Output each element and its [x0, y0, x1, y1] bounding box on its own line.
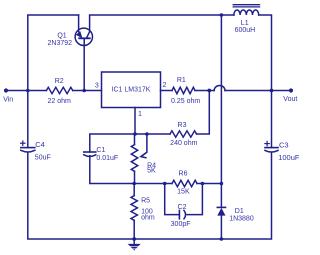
svg-text:0.25 ohm: 0.25 ohm — [171, 98, 200, 105]
svg-text:C3: C3 — [279, 140, 289, 149]
capacitor C4 plates — [21, 148, 35, 152]
wire R4 bottom lead — [134, 171, 136, 183]
svg-text:R6: R6 — [179, 170, 188, 177]
node Vin terminal — [4, 88, 8, 92]
svg-text:R1: R1 — [177, 77, 186, 84]
transistor Q1 circle — [75, 28, 92, 45]
inductor L1 core bar 2 — [233, 6, 259, 8]
wire left rail lower (C4 to bottom rail) — [28, 153, 134, 239]
potentiometer R4 wiper arrow — [141, 134, 147, 158]
wire R5 bottom lead — [133, 220, 135, 239]
wire R6 right lead to D1 line — [197, 183, 221, 185]
svg-text:15K: 15K — [177, 189, 190, 196]
svg-text:100uF: 100uF — [278, 153, 300, 162]
svg-text:50uF: 50uF — [35, 154, 51, 161]
wire R6 left node lead — [165, 183, 172, 185]
svg-text:IC1 LM317K: IC1 LM317K — [112, 86, 151, 93]
svg-text:300pF: 300pF — [171, 221, 191, 228]
capacitor C4 plus sign — [21, 141, 25, 145]
svg-text:22 ohm: 22 ohm — [48, 98, 72, 105]
svg-text:Vin: Vin — [3, 97, 13, 104]
junction D1 line / bottom rail — [220, 237, 224, 241]
svg-text:2: 2 — [163, 82, 167, 89]
junction pin1 / ADJ rail — [133, 132, 137, 136]
resistor R2 — [46, 87, 72, 93]
svg-text:ohm: ohm — [141, 215, 155, 222]
op-amp U1 / IC1 LM317K box — [102, 72, 161, 108]
junction output node at R1 — [207, 89, 211, 93]
svg-text:1: 1 — [138, 111, 142, 118]
transistor Q1 emitter arrow — [76, 31, 83, 38]
svg-text:5K: 5K — [147, 168, 156, 175]
wire R2 to IC1 pin 3 — [73, 90, 102, 92]
svg-text:Q1: Q1 — [57, 32, 66, 39]
junction ground node on bottom rail — [132, 237, 136, 241]
junction left rail / input wire — [26, 89, 30, 93]
svg-text:0.01uF: 0.01uF — [96, 155, 118, 162]
svg-text:R2: R2 — [55, 78, 64, 85]
junction R6 wire / D1 line — [220, 182, 224, 186]
junction R6 right node — [201, 182, 205, 186]
node Vout terminal — [289, 88, 293, 92]
junction Q1 base / input wire — [82, 89, 86, 93]
wire R4/R5 node to R6 left node — [134, 183, 165, 185]
wire L1 right to right rail top — [259, 15, 272, 148]
svg-text:Vout: Vout — [283, 96, 297, 103]
svg-text:C4: C4 — [35, 140, 45, 149]
transistor Q1 collector diagonal — [86, 32, 89, 39]
wire R4 top lead — [134, 134, 136, 145]
wire Q1 base lead down to input node — [83, 38, 85, 90]
capacitor C3 plus sign — [265, 141, 269, 145]
wire D1 anode to bottom rail — [220, 216, 222, 239]
resistor R3 — [170, 131, 197, 137]
svg-text:R5: R5 — [141, 198, 150, 205]
svg-text:L1: L1 — [241, 20, 249, 27]
junction R4 wiper / ADJ rail — [145, 132, 149, 136]
capacitor C1 plates — [84, 152, 96, 156]
inductor L1 loops — [234, 10, 259, 15]
svg-text:240 ohm: 240 ohm — [170, 140, 197, 147]
resistor R6 — [172, 180, 197, 186]
resistor R5 — [131, 196, 137, 221]
wire output node to Vout terminal — [225, 90, 291, 92]
wire R3 right up to output node — [197, 91, 210, 135]
wire top rail left (Vin rail to Q1 emitter) — [28, 15, 79, 148]
svg-text:C2: C2 — [178, 204, 187, 211]
wire Q1 emitter lead — [78, 15, 80, 32]
svg-text:600uH: 600uH — [235, 27, 256, 34]
wire ADJ rail: C1 top to R3 left — [90, 134, 170, 152]
svg-text:R3: R3 — [178, 122, 187, 129]
wire IC1 pin 1 down to ADJ node — [134, 108, 136, 135]
svg-text:3: 3 — [95, 82, 99, 89]
wire Vin to R2 — [6, 90, 46, 92]
capacitor C3 plates — [265, 148, 278, 152]
junction top rail / D1 line — [220, 13, 224, 17]
ground — [128, 239, 141, 251]
svg-text:1N3880: 1N3880 — [229, 216, 254, 223]
wire R5 top lead — [133, 184, 135, 196]
inductor L1 core bar 1 — [233, 4, 259, 6]
wire C2 left branch — [165, 184, 179, 215]
wire top rail right (Q1 collector to L1) — [90, 15, 234, 32]
resistor R1 — [172, 87, 195, 93]
wire IC1 pin 2 to R1 — [161, 90, 173, 92]
wire bottom rail right — [134, 153, 271, 239]
wire C2 right branch — [187, 184, 202, 215]
svg-text:2N3792: 2N3792 — [48, 40, 73, 47]
wire C1 bottom to R4/R5 node — [90, 156, 134, 184]
wire hop over D1 line — [214, 86, 225, 91]
svg-text:C1: C1 — [96, 147, 105, 154]
potentiometer R4 body — [131, 145, 137, 172]
junction R4-R5 node — [132, 182, 136, 186]
junction R6 left node — [163, 182, 167, 186]
transistor Q1 base bar — [79, 37, 90, 39]
diode D1 — [217, 207, 225, 215]
junction right rail / output wire — [270, 89, 274, 93]
wire D1 line upper (collector rail to D1 cathode) — [220, 15, 222, 207]
svg-text:D1: D1 — [235, 208, 244, 215]
capacitor C2 plates — [179, 210, 185, 218]
wire R1 to output node — [195, 90, 214, 92]
